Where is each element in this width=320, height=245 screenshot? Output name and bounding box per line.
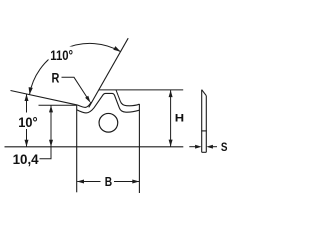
svg-text:S: S — [221, 140, 228, 154]
svg-text:H: H — [175, 112, 184, 125]
svg-text:R: R — [51, 70, 59, 86]
svg-text:10°: 10° — [18, 114, 37, 130]
svg-text:10,4: 10,4 — [13, 151, 39, 167]
svg-text:110°: 110° — [50, 48, 73, 63]
svg-text:B: B — [105, 174, 112, 189]
